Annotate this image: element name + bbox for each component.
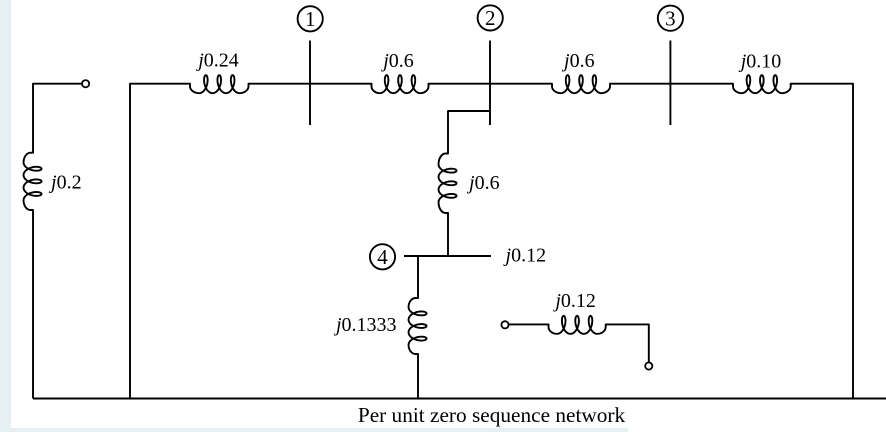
bus 1 number circle (298, 6, 323, 31)
bus 2 number circle (478, 5, 503, 30)
bus 4 number circle (370, 244, 395, 269)
wire bus 2 to inductor j0.6 (vertical) (448, 111, 490, 154)
inductor j0.2 (left source) (24, 153, 42, 210)
wire terminal T2 to inductor j0.12 (509, 323, 549, 325)
svg-text:j0.1333: j0.1333 (333, 314, 397, 336)
wire inductor j0.12 to terminal T3 (606, 324, 649, 362)
bus 3 number circle (658, 6, 683, 31)
terminal T1 (left source neutral) (82, 80, 89, 87)
wire inductor j0.6 to node 4 bar (447, 213, 449, 256)
inductor j0.6 (line 2-3) (552, 75, 610, 93)
inductor j0.24 (190, 75, 249, 93)
wire left vertical + top bus to inductor j0.24 (130, 84, 190, 399)
inductor j0.6 (line 1-2) (372, 75, 429, 93)
svg-text:j0.6: j0.6 (466, 172, 500, 194)
wire from terminal T1 to inductor j0.2 (33, 84, 82, 153)
wire from inductor j0.2 to bottom bus (32, 210, 34, 399)
bus 1 bar (309, 41, 311, 126)
svg-text:4: 4 (377, 245, 388, 269)
svg-text:3: 3 (665, 7, 676, 31)
wire bottom bus (reference) (33, 398, 886, 400)
terminal T3 (open winding right) (645, 362, 652, 369)
svg-text:1: 1 (305, 7, 316, 31)
inductor j0.12 (open delta winding) (549, 316, 606, 334)
wire top bus: j0.6 to j0.10 (610, 83, 733, 85)
svg-text:Per unit zero sequence network: Per unit zero sequence network (358, 403, 626, 427)
svg-text:2: 2 (485, 6, 496, 30)
svg-text:j0.12: j0.12 (503, 245, 547, 267)
node 4 bar (404, 255, 491, 257)
svg-text:j0.24: j0.24 (195, 50, 239, 72)
bus 3 bar (669, 41, 671, 126)
wire top bus right segment + right vertical (791, 84, 853, 399)
wire top bus: j0.6 to j0.6 (429, 83, 553, 85)
svg-text:j0.10: j0.10 (738, 50, 782, 72)
inductor j0.1333 (409, 298, 427, 354)
wire inductor j0.1333 to bottom bus (417, 354, 419, 399)
svg-text:j0.2: j0.2 (48, 172, 82, 194)
svg-text:j0.12: j0.12 (552, 290, 596, 312)
svg-text:j0.6: j0.6 (380, 50, 414, 72)
inductor j0.6 (vertical, bus2 branch) (439, 154, 457, 214)
svg-text:j0.6: j0.6 (561, 50, 595, 72)
terminal T2 (open winding left) (501, 321, 508, 328)
wire node 4 to inductor j0.1333 (417, 256, 419, 298)
bus 2 bar (489, 41, 491, 126)
wire top bus: j0.24 to j0.6 (249, 83, 372, 85)
inductor j0.10 (733, 75, 791, 93)
